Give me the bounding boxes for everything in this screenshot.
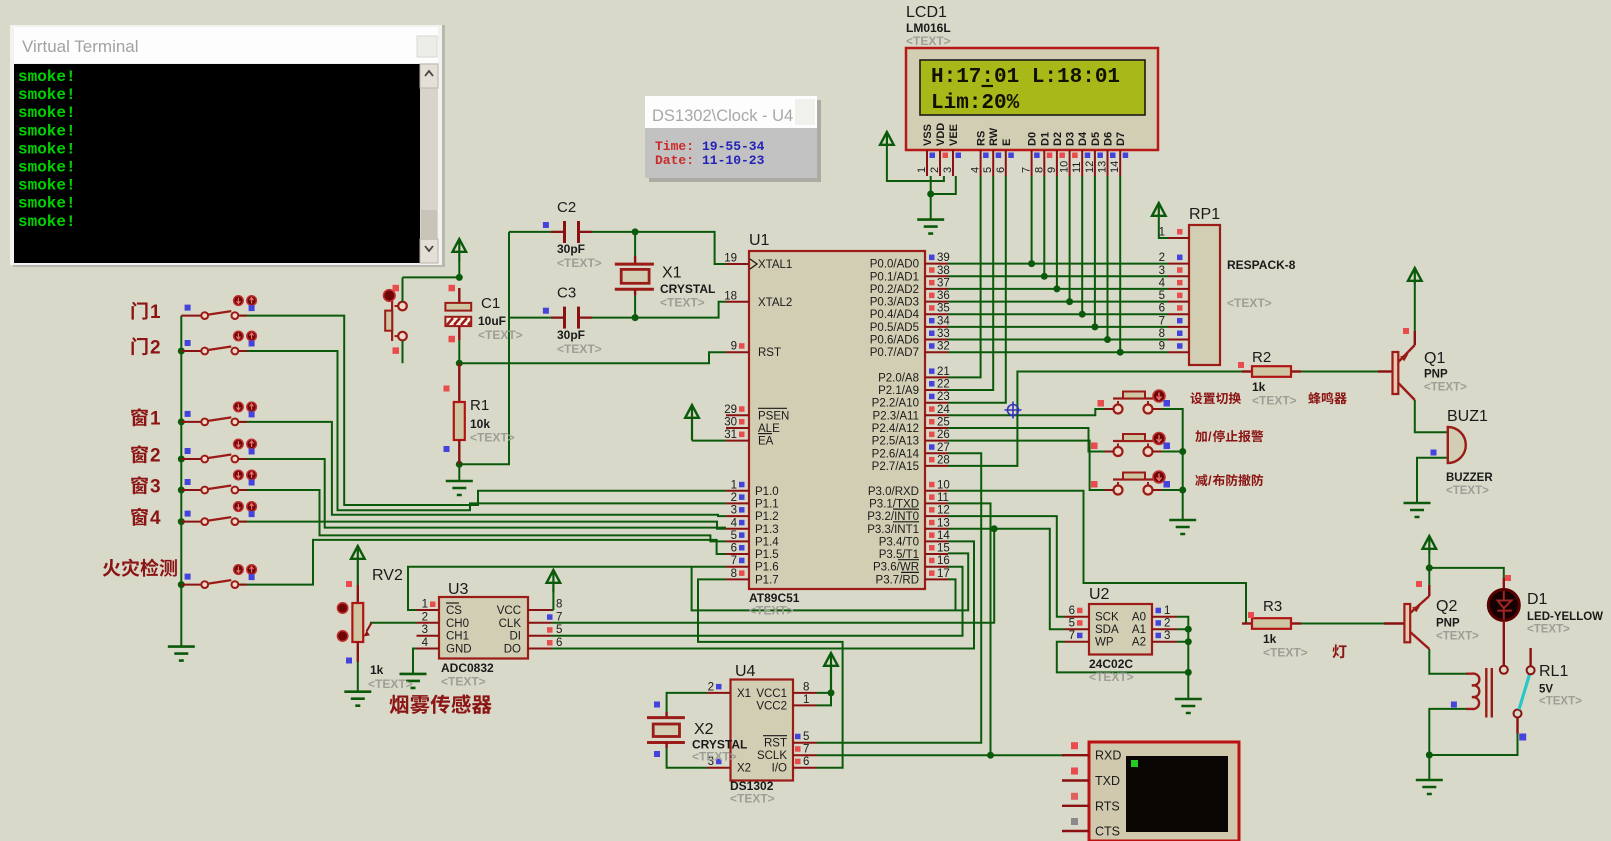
RTC U4 DS1302	[730, 663, 793, 806]
svg-text:RV2: RV2	[372, 567, 403, 584]
wire P2.6 to U4 RST	[817, 453, 982, 742]
wire switch common rail	[180, 316, 182, 647]
svg-text:X2: X2	[737, 763, 751, 775]
wire C2C3 ground leg	[459, 232, 509, 464]
svg-text:U2: U2	[1089, 586, 1110, 603]
EEPROM U2 24C02C	[1089, 586, 1152, 684]
wire R2 to Q1 base	[1291, 371, 1393, 373]
svg-text:23: 23	[937, 391, 950, 403]
wire P0 bus to RP1	[948, 264, 1168, 353]
svg-text:XTAL2: XTAL2	[758, 297, 792, 309]
svg-text:10k: 10k	[470, 417, 490, 431]
svg-text:22: 22	[937, 379, 950, 391]
svg-text:P1.4: P1.4	[755, 536, 779, 548]
svg-text:P1.1: P1.1	[755, 498, 779, 510]
svg-text:<TEXT>: <TEXT>	[1089, 670, 1134, 684]
svg-text:13: 13	[1097, 161, 1109, 173]
svg-text:VCC1: VCC1	[756, 688, 787, 700]
wire U2 address pins to ground	[1177, 617, 1189, 699]
wire C2 net	[509, 232, 726, 264]
push button add-stop-alarm	[1091, 433, 1170, 457]
svg-text:2: 2	[1164, 618, 1170, 630]
svg-text:7: 7	[1021, 167, 1033, 173]
svg-text:2: 2	[150, 446, 161, 467]
svg-text:CLK: CLK	[499, 618, 522, 630]
svg-text:Q1: Q1	[1424, 350, 1445, 367]
svg-text:8: 8	[1033, 167, 1045, 173]
ground buzzer	[1404, 503, 1431, 517]
svg-text:4: 4	[422, 637, 429, 649]
svg-text:1: 1	[916, 167, 928, 173]
wire window1 to P1.2	[240, 422, 726, 516]
wire door1 to P1.0	[240, 316, 726, 505]
svg-text:24: 24	[937, 404, 950, 416]
wire LCD data verticals	[1032, 176, 1121, 352]
svg-text:13: 13	[937, 517, 950, 529]
switch fire-detect	[181, 565, 256, 588]
svg-text:DI: DI	[510, 631, 522, 643]
svg-text:3: 3	[942, 167, 954, 173]
svg-text:3: 3	[1164, 630, 1170, 642]
wire Q1 emitter power	[1414, 284, 1416, 331]
svg-text:I/O: I/O	[772, 763, 787, 775]
svg-text:8: 8	[556, 599, 562, 611]
svg-text:VCC: VCC	[497, 605, 521, 617]
wire Q1 collector to buzzer	[1415, 400, 1448, 432]
wire U4 X1 to crystal	[667, 693, 707, 712]
svg-text:BUZZER: BUZZER	[1446, 472, 1493, 484]
svg-text:<TEXT>: <TEXT>	[441, 675, 486, 689]
virtual terminal pin stubs	[1062, 742, 1089, 831]
power symbol U4 VCC	[824, 653, 838, 666]
svg-text:C2: C2	[557, 199, 576, 216]
svg-text:P0.3/AD3: P0.3/AD3	[870, 297, 919, 309]
svg-text:7: 7	[803, 744, 809, 756]
svg-text:5: 5	[556, 624, 562, 636]
svg-text:9: 9	[1046, 167, 1058, 173]
svg-text:2: 2	[731, 492, 737, 504]
svg-text:6: 6	[1159, 303, 1165, 315]
svg-text:26: 26	[937, 429, 950, 441]
svg-text:4: 4	[970, 167, 982, 173]
svg-text:34: 34	[937, 315, 950, 327]
svg-text:/: /	[1208, 473, 1212, 488]
svg-text:1: 1	[1159, 227, 1165, 239]
resistor R2 1k	[1238, 349, 1301, 408]
label add-stop-alarm	[1195, 429, 1263, 444]
label fire-detect	[103, 559, 177, 577]
LED D1 yellow	[1488, 575, 1603, 674]
label lamp-cn	[1333, 644, 1347, 658]
svg-text:<TEXT>: <TEXT>	[557, 256, 602, 270]
wire P3.2 to U2 SCK	[948, 516, 1065, 617]
svg-text:11: 11	[937, 492, 949, 504]
wire P3.4 to U3 DO	[552, 541, 975, 648]
svg-text:12: 12	[1084, 161, 1096, 173]
power symbol Q1	[1408, 268, 1422, 281]
svg-text:3: 3	[422, 624, 428, 636]
label door1	[132, 302, 148, 320]
wire U3 VCC power	[552, 587, 554, 610]
power symbol reset	[453, 239, 467, 252]
wire P3.0 to R3	[948, 491, 1252, 624]
power symbol EA	[685, 405, 699, 418]
svg-text:P2.7/A15: P2.7/A15	[872, 461, 919, 473]
ground switches	[168, 647, 195, 661]
svg-text:8: 8	[1159, 328, 1165, 340]
svg-text:36: 36	[937, 290, 950, 302]
svg-text:D6: D6	[1103, 132, 1115, 146]
svg-text:P0.0/AD0: P0.0/AD0	[870, 259, 919, 271]
svg-text:18: 18	[724, 290, 737, 302]
svg-text:P2.4/A12: P2.4/A12	[872, 423, 919, 435]
svg-text:RST: RST	[764, 738, 787, 750]
svg-text:RTS: RTS	[1095, 799, 1120, 813]
label door2	[132, 337, 148, 355]
svg-text:P1.6: P1.6	[755, 562, 779, 574]
switch window2	[181, 439, 256, 462]
svg-text:6: 6	[995, 167, 1007, 173]
svg-text:<TEXT>: <TEXT>	[1227, 296, 1272, 310]
power symbol Q2	[1423, 536, 1437, 549]
svg-text:1: 1	[731, 479, 737, 491]
svg-text:<TEXT>: <TEXT>	[692, 750, 737, 764]
svg-text:smoke!: smoke!	[18, 195, 76, 213]
wire U2 WP loop	[1057, 642, 1189, 673]
svg-text:38: 38	[937, 265, 950, 277]
svg-text:DS1302\Clock - U4: DS1302\Clock - U4	[652, 107, 793, 125]
svg-text:LM016L: LM016L	[906, 21, 951, 35]
wire fire-detect to P1.5	[240, 540, 726, 585]
svg-text:P2.0/A8: P2.0/A8	[878, 372, 919, 384]
LCD display LCD1 LM016L	[906, 4, 1158, 150]
svg-text:P1.3: P1.3	[755, 524, 779, 536]
svg-text:27: 27	[937, 442, 950, 454]
svg-text:RESPACK-8: RESPACK-8	[1227, 258, 1296, 272]
svg-text:P1.5: P1.5	[755, 549, 779, 561]
svg-text:5: 5	[982, 167, 994, 173]
label window2	[131, 445, 148, 463]
svg-text:15: 15	[937, 543, 950, 555]
power symbol U3 VCC	[547, 570, 561, 583]
svg-text:7: 7	[556, 611, 562, 623]
svg-text:VDD: VDD	[935, 123, 947, 146]
power symbol RV2	[351, 546, 365, 559]
svg-text:5V: 5V	[1539, 684, 1553, 696]
svg-text:P3.7/RD: P3.7/RD	[876, 574, 919, 586]
U1 right pin stubs	[925, 264, 948, 580]
svg-text:11: 11	[1071, 162, 1083, 173]
svg-text:<TEXT>: <TEXT>	[749, 604, 794, 618]
svg-text:7: 7	[1069, 630, 1075, 642]
svg-text:P0.4/AD4: P0.4/AD4	[870, 309, 920, 321]
svg-text:A0: A0	[1132, 612, 1146, 624]
svg-text:9: 9	[731, 341, 737, 353]
switch door1	[181, 296, 256, 319]
wire EA power	[692, 440, 726, 442]
svg-text:10: 10	[937, 479, 950, 491]
svg-text:1: 1	[803, 694, 809, 706]
svg-text:<TEXT>: <TEXT>	[1446, 485, 1489, 497]
svg-text:CRYSTAL: CRYSTAL	[660, 282, 715, 296]
transistor Q2 PNP	[1384, 581, 1479, 649]
svg-text:6: 6	[731, 543, 737, 555]
ground LCD	[917, 220, 944, 234]
wire RP1 pin1 power	[1159, 216, 1168, 238]
svg-text:U3: U3	[448, 581, 469, 598]
svg-text:<TEXT>: <TEXT>	[1436, 631, 1479, 643]
svg-text:D2: D2	[1052, 132, 1064, 146]
wire door2 to P1.1	[240, 351, 726, 510]
svg-text:10: 10	[1059, 161, 1071, 173]
U4 pin stubs	[707, 681, 817, 768]
svg-text:PNP: PNP	[1436, 618, 1460, 630]
svg-text:X2: X2	[694, 721, 714, 738]
crystal X1	[615, 232, 716, 318]
svg-text:39: 39	[937, 252, 950, 264]
svg-text:VEE: VEE	[948, 124, 960, 146]
svg-text:<TEXT>: <TEXT>	[906, 34, 951, 48]
label set-switch	[1190, 392, 1241, 404]
svg-text:RST: RST	[758, 347, 781, 359]
svg-text:P1.0: P1.0	[755, 486, 779, 498]
svg-text:5: 5	[1069, 618, 1075, 630]
capacitor C3 30pF	[543, 285, 602, 356]
capacitor C1 10uF polarized	[445, 285, 522, 363]
svg-text:24C02C: 24C02C	[1089, 657, 1133, 671]
svg-text:33: 33	[937, 328, 950, 340]
svg-text:DO: DO	[504, 644, 521, 656]
cursor crosshair	[1005, 402, 1022, 419]
power symbol LCD VDD	[880, 132, 894, 145]
push button set-switch	[1098, 390, 1171, 414]
svg-text:1: 1	[422, 599, 428, 611]
ground R1	[458, 464, 460, 481]
virtual terminal component	[1089, 742, 1239, 841]
ground relay	[1416, 780, 1443, 794]
svg-text:VSS: VSS	[922, 124, 934, 146]
LCD pin names rotated	[922, 123, 1127, 146]
wire power to D1	[1429, 568, 1504, 578]
svg-text:WP: WP	[1095, 637, 1114, 649]
wire P3.7 stub route	[948, 579, 956, 610]
U1 pin names	[755, 259, 920, 587]
svg-text:4: 4	[1159, 277, 1166, 289]
svg-text:9: 9	[1159, 341, 1165, 353]
svg-text:SCK: SCK	[1095, 612, 1119, 624]
svg-text:<TEXT>: <TEXT>	[1527, 624, 1570, 636]
svg-text:Virtual Terminal: Virtual Terminal	[22, 37, 139, 56]
switch door2	[181, 331, 256, 354]
svg-text:<TEXT>: <TEXT>	[368, 677, 413, 691]
buzzer BUZ1	[1431, 408, 1494, 497]
svg-text:TXD: TXD	[1095, 774, 1120, 788]
svg-text:17: 17	[937, 568, 950, 580]
svg-text:19: 19	[724, 253, 737, 265]
svg-text:2: 2	[1159, 252, 1165, 264]
LCD pin stubs numbers squares	[916, 150, 1128, 176]
crystal X2	[647, 702, 747, 764]
relay RL1 5V	[1451, 648, 1582, 741]
virtual terminal scrollbar	[420, 64, 438, 263]
svg-text:2: 2	[708, 681, 714, 693]
svg-text:<TEXT>: <TEXT>	[1539, 696, 1582, 708]
svg-text:smoke!: smoke!	[18, 122, 76, 140]
svg-text:R2: R2	[1252, 349, 1271, 366]
svg-text:CH0: CH0	[446, 618, 469, 630]
svg-text:X1: X1	[662, 265, 682, 282]
wire LCD RS to P2.0	[948, 176, 981, 377]
svg-text:RL1: RL1	[1539, 663, 1568, 680]
label smoke-sensor	[390, 694, 492, 714]
svg-text:12: 12	[937, 505, 950, 517]
svg-text:EA: EA	[758, 436, 774, 448]
svg-text:<TEXT>: <TEXT>	[1252, 394, 1297, 408]
push button reset	[384, 277, 407, 363]
transistor Q1 PNP	[1378, 328, 1467, 400]
svg-text:4: 4	[731, 517, 738, 529]
resistor R3 1k	[1242, 598, 1308, 660]
svg-text:CTS: CTS	[1095, 825, 1120, 839]
svg-text:C3: C3	[557, 285, 576, 302]
svg-text:smoke!: smoke!	[18, 213, 76, 231]
ground U2	[1175, 699, 1202, 713]
svg-text:8: 8	[803, 681, 809, 693]
svg-text:D7: D7	[1115, 132, 1127, 146]
svg-text:smoke!: smoke!	[18, 177, 76, 195]
capacitor C2 30pF	[543, 199, 602, 270]
svg-text:1: 1	[150, 409, 161, 430]
svg-text:14: 14	[1109, 161, 1121, 173]
label window3	[131, 476, 148, 494]
wire P3.1 to U4 SCLK and terminal RXD	[817, 503, 1065, 755]
wire window3 to P1.4	[240, 490, 726, 541]
svg-text:D4: D4	[1077, 131, 1089, 146]
svg-text:6: 6	[1069, 605, 1075, 617]
svg-text:P1.2: P1.2	[755, 511, 779, 523]
svg-text:BUZ1: BUZ1	[1447, 408, 1488, 425]
svg-text:P0.5/AD5: P0.5/AD5	[870, 322, 919, 334]
svg-text:6: 6	[803, 756, 809, 768]
svg-text:14: 14	[937, 530, 950, 542]
svg-text:<TEXT>: <TEXT>	[470, 431, 515, 445]
wire LCD VSS VEE ground	[931, 176, 956, 220]
svg-text:2: 2	[150, 338, 161, 359]
svg-text:XTAL1: XTAL1	[758, 259, 792, 271]
wire U4 X2 to crystal	[667, 748, 707, 768]
wire U4 VCC1 VCC2 power	[817, 693, 832, 706]
svg-text:H:17:01 L:18:01: H:17:01 L:18:01	[931, 66, 1120, 89]
wire P1.7 to U4 I/O	[698, 579, 843, 767]
svg-text:Time:: Time:	[655, 139, 694, 154]
wire button1 to P2.3	[948, 409, 1113, 415]
wire P3.3 branch to U3 CLK	[552, 529, 995, 623]
ground buttons	[1169, 520, 1196, 534]
svg-text:25: 25	[937, 417, 950, 429]
svg-text:D1: D1	[1039, 132, 1051, 146]
virtual terminal window	[10, 25, 445, 267]
wire Q2 emitter power node	[1428, 553, 1430, 585]
ground U3	[400, 674, 427, 688]
wire RV2 wiper to U3 CH0	[370, 622, 417, 624]
svg-text:D3: D3	[1065, 132, 1077, 146]
wire P2.7 to R2	[948, 372, 1252, 466]
svg-text:37: 37	[937, 277, 950, 289]
wire relay contact branch	[1429, 734, 1517, 756]
switch window4	[181, 502, 256, 525]
switch window3	[181, 470, 256, 493]
svg-text:11-10-23: 11-10-23	[702, 153, 765, 168]
svg-text:SCLK: SCLK	[757, 750, 787, 762]
svg-text:smoke!: smoke!	[18, 68, 76, 86]
svg-text:<TEXT>: <TEXT>	[1263, 646, 1308, 660]
svg-text:U4: U4	[735, 663, 756, 680]
svg-text:RW: RW	[988, 127, 1000, 146]
svg-text:4: 4	[150, 508, 161, 529]
svg-text:X1: X1	[737, 688, 751, 700]
svg-text:5: 5	[1159, 290, 1165, 302]
svg-text:RS: RS	[976, 131, 988, 146]
wire buzzer to ground	[1417, 458, 1448, 503]
virtual terminal smoke text	[18, 68, 76, 231]
svg-text:8: 8	[731, 568, 737, 580]
U2 pin stubs	[1065, 605, 1177, 642]
svg-text:31: 31	[724, 429, 737, 441]
svg-text:P2.3/A11: P2.3/A11	[873, 410, 919, 422]
svg-text:5: 5	[731, 530, 737, 542]
svg-text:smoke!: smoke!	[18, 140, 76, 158]
svg-text:D0: D0	[1027, 132, 1039, 146]
svg-text:16: 16	[937, 555, 950, 567]
svg-text:CS: CS	[446, 605, 462, 617]
resistor pack RP1 RESPACK-8	[1189, 206, 1296, 365]
svg-text:2: 2	[422, 611, 428, 623]
svg-text:LED-YELLOW: LED-YELLOW	[1527, 611, 1603, 623]
svg-text:<TEXT>: <TEXT>	[1424, 382, 1467, 394]
svg-text:VCC2: VCC2	[756, 700, 787, 712]
wire R3 to Q2 base	[1291, 623, 1404, 625]
RP1 pin stubs and numbers	[1159, 227, 1189, 353]
wire C3 net	[509, 302, 726, 318]
svg-text:Lim:20%: Lim:20%	[931, 92, 1020, 115]
svg-text:D5: D5	[1090, 132, 1102, 146]
svg-text:ADC0832: ADC0832	[441, 661, 494, 675]
svg-text:P0.2/AD2: P0.2/AD2	[870, 284, 919, 296]
wire button3 to P2.5	[948, 441, 1113, 490]
svg-text:1: 1	[1164, 605, 1170, 617]
wire window2 to P1.3	[240, 459, 726, 528]
svg-text:30pF: 30pF	[557, 242, 585, 256]
svg-text:R3: R3	[1263, 598, 1282, 615]
svg-text:C1: C1	[481, 295, 500, 312]
svg-text:1: 1	[150, 302, 161, 323]
svg-text:1k: 1k	[1263, 632, 1277, 646]
svg-text:A1: A1	[1132, 624, 1146, 636]
svg-text:P0.7/AD7: P0.7/AD7	[870, 347, 919, 359]
svg-text:U1: U1	[749, 232, 770, 249]
wire P3.6 to U3 DI	[552, 567, 963, 636]
svg-text:30pF: 30pF	[557, 328, 585, 342]
ground RV2	[357, 662, 359, 692]
svg-text:PSEN: PSEN	[758, 410, 789, 422]
svg-text:2: 2	[929, 167, 941, 173]
potentiometer RV2 1k	[337, 567, 412, 691]
svg-text:Q2: Q2	[1436, 598, 1457, 615]
svg-text:E: E	[1001, 139, 1013, 146]
svg-text:/: /	[1208, 429, 1212, 444]
svg-text:29: 29	[724, 404, 737, 416]
svg-text:7: 7	[1159, 315, 1165, 327]
